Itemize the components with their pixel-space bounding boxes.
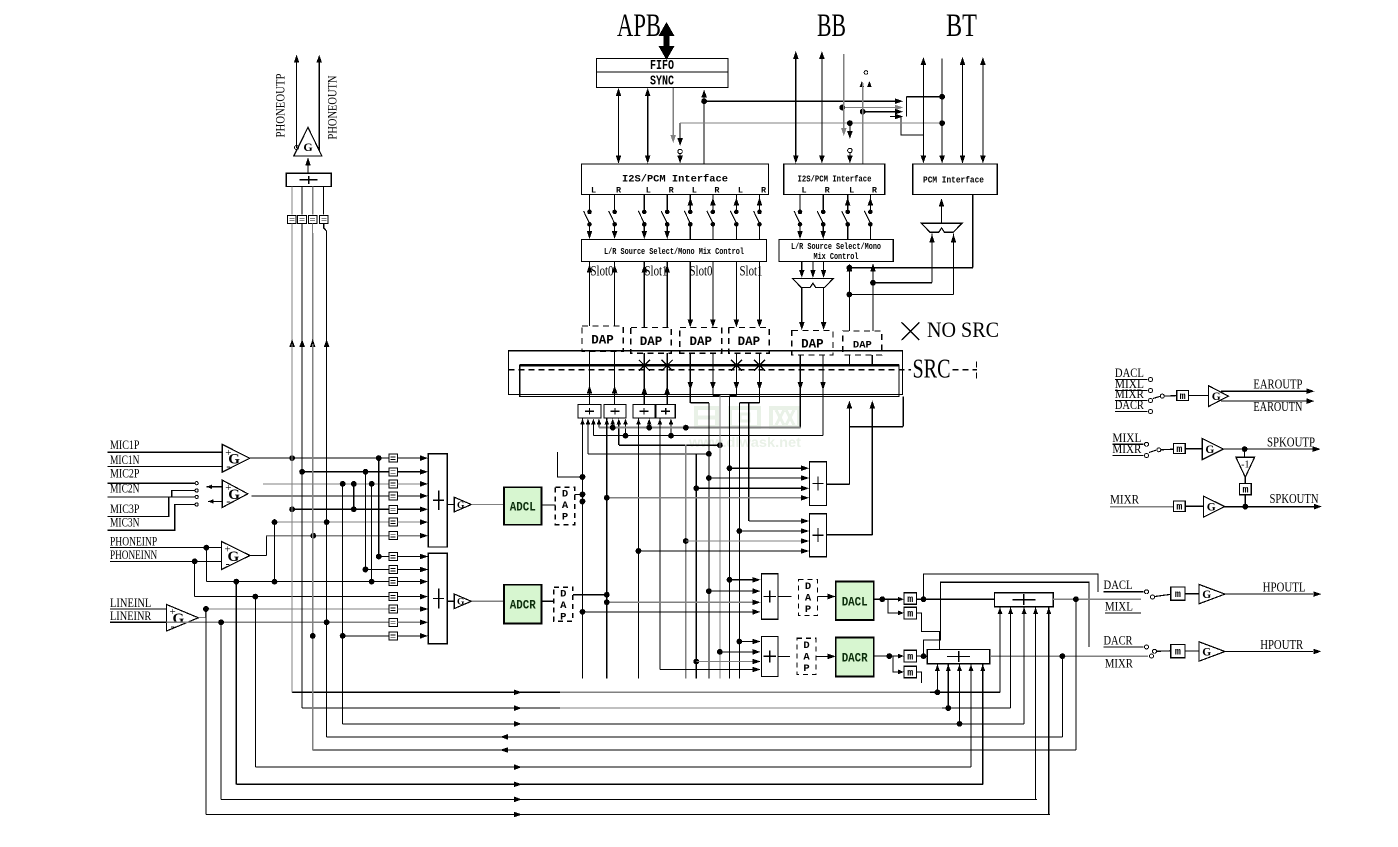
svg-text:P: P xyxy=(803,663,809,675)
svg-text:I2S/PCM Interface: I2S/PCM Interface xyxy=(622,174,728,186)
svg-text:MIXL: MIXL xyxy=(1105,600,1133,614)
svg-text:m: m xyxy=(907,653,913,664)
svg-text:+: + xyxy=(225,544,231,556)
svg-text:DACR: DACR xyxy=(1104,634,1134,648)
svg-text:FIFO: FIFO xyxy=(650,59,674,74)
svg-text:R: R xyxy=(872,186,878,196)
svg-text:-: - xyxy=(171,618,175,633)
svg-text:SPKOUTP: SPKOUTP xyxy=(1267,434,1315,449)
svg-text:G: G xyxy=(1205,444,1214,456)
svg-text:ADCR: ADCR xyxy=(510,599,536,613)
svg-text:G: G xyxy=(457,598,465,608)
svg-text:BB: BB xyxy=(817,8,846,44)
svg-text:PHONEOUTN: PHONEOUTN xyxy=(326,76,340,140)
svg-text:Slot0: Slot0 xyxy=(690,264,713,280)
svg-text:m: m xyxy=(907,595,913,606)
svg-text:MIC2P: MIC2P xyxy=(110,466,140,481)
svg-text:-1: -1 xyxy=(1241,460,1249,471)
svg-text:m: m xyxy=(1175,590,1181,601)
svg-text:R: R xyxy=(761,186,767,196)
svg-text:DAP: DAP xyxy=(801,337,824,351)
svg-text:MIXR: MIXR xyxy=(1105,657,1134,671)
svg-text:G: G xyxy=(457,501,465,511)
svg-text:DACR: DACR xyxy=(1115,398,1145,412)
svg-text:PCM Interface: PCM Interface xyxy=(923,176,984,186)
svg-text:I2S/PCM Interface: I2S/PCM Interface xyxy=(798,175,872,185)
svg-text:MIC1P: MIC1P xyxy=(110,437,140,452)
svg-text:R: R xyxy=(714,186,720,196)
svg-text:D: D xyxy=(562,489,568,501)
svg-text:LINEINR: LINEINR xyxy=(110,608,152,623)
svg-text:G: G xyxy=(303,140,312,154)
svg-text:m: m xyxy=(907,668,913,679)
svg-text:Slot1: Slot1 xyxy=(645,264,668,280)
svg-text:R: R xyxy=(616,186,622,196)
svg-text:Mix Control: Mix Control xyxy=(814,252,859,262)
svg-text:L: L xyxy=(801,186,806,196)
svg-text:A: A xyxy=(560,600,567,612)
svg-text:-: - xyxy=(226,556,230,571)
svg-text:A: A xyxy=(803,651,810,663)
svg-text:DAP: DAP xyxy=(853,340,872,352)
svg-text:G: G xyxy=(1202,589,1211,601)
svg-text:+: + xyxy=(170,606,176,618)
svg-text:m: m xyxy=(1180,392,1186,403)
svg-text:L: L xyxy=(692,186,697,196)
svg-text:L: L xyxy=(646,186,651,196)
svg-text:DAP: DAP xyxy=(689,335,712,349)
svg-text:DACL: DACL xyxy=(842,595,868,609)
svg-text:P: P xyxy=(560,612,566,624)
svg-text:L: L xyxy=(849,186,854,196)
svg-text:L: L xyxy=(591,186,596,196)
svg-text:PHONEINP: PHONEINP xyxy=(110,533,157,548)
svg-text:DAP: DAP xyxy=(591,333,614,347)
svg-text:MIXR: MIXR xyxy=(1112,442,1142,456)
svg-text:L: L xyxy=(738,186,743,196)
svg-text:APB: APB xyxy=(617,8,661,44)
svg-text:SRC: SRC xyxy=(913,354,951,384)
svg-text:m: m xyxy=(1176,445,1182,456)
svg-text:HPOUTR: HPOUTR xyxy=(1260,637,1303,652)
svg-text:PHONEOUTP: PHONEOUTP xyxy=(274,73,288,137)
svg-text:D: D xyxy=(560,589,566,601)
svg-text:Slot0: Slot0 xyxy=(591,264,614,280)
svg-text:-: - xyxy=(226,493,230,508)
svg-text:D: D xyxy=(805,581,811,593)
svg-text:L/R Source Select/Mono: L/R Source Select/Mono xyxy=(791,242,881,252)
svg-text:-: - xyxy=(226,458,230,473)
svg-text:D: D xyxy=(803,640,809,652)
svg-text:G: G xyxy=(1212,391,1221,403)
svg-text:DACR: DACR xyxy=(842,652,868,666)
svg-text:BT: BT xyxy=(946,8,977,44)
svg-text:m: m xyxy=(1175,648,1181,659)
svg-text:R: R xyxy=(669,186,675,196)
svg-text:G: G xyxy=(1207,502,1216,514)
svg-text:A: A xyxy=(805,593,812,605)
svg-text:HPOUTL: HPOUTL xyxy=(1263,580,1306,595)
svg-text:PHONEINN: PHONEINN xyxy=(110,547,158,562)
svg-text:SYNC: SYNC xyxy=(650,75,674,90)
svg-text:P: P xyxy=(805,604,811,616)
svg-text:A: A xyxy=(562,500,569,512)
svg-text:P: P xyxy=(562,512,568,524)
svg-text:DAP: DAP xyxy=(738,335,761,349)
svg-text:R: R xyxy=(825,186,831,196)
svg-text:ADCL: ADCL xyxy=(510,500,536,514)
svg-text:G: G xyxy=(1202,647,1211,659)
svg-text:DAP: DAP xyxy=(640,335,663,349)
svg-text:www.dlwask.net: www.dlwask.net xyxy=(688,435,802,450)
svg-text:m: m xyxy=(907,610,913,621)
svg-text:EAROUTP: EAROUTP xyxy=(1253,377,1302,392)
svg-text:NO SRC: NO SRC xyxy=(927,317,999,342)
svg-text:DACL: DACL xyxy=(1104,578,1133,592)
svg-text:EAROUTN: EAROUTN xyxy=(1253,399,1302,414)
svg-text:L/R Source Select/Mono Mix Con: L/R Source Select/Mono Mix Control xyxy=(604,246,744,257)
svg-text:MIXR: MIXR xyxy=(1110,493,1140,507)
svg-text:SPKOUTN: SPKOUTN xyxy=(1270,491,1319,506)
svg-text:m: m xyxy=(1176,503,1182,514)
